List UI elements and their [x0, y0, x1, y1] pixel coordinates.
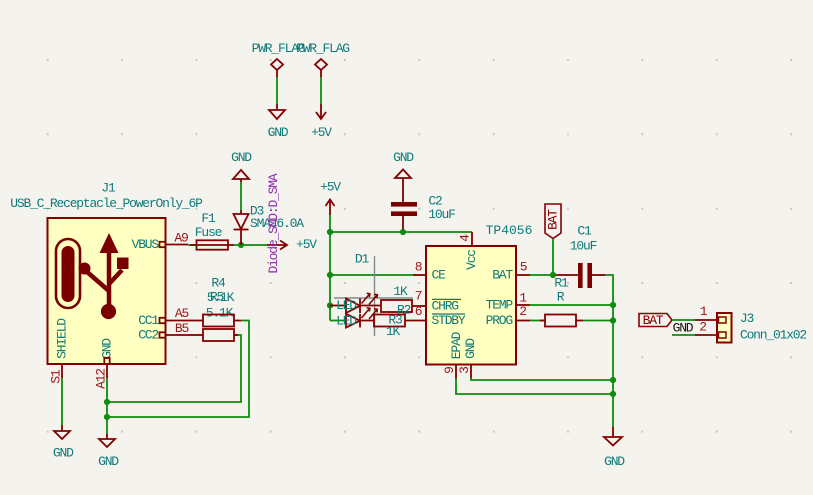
USB-C receptacle glyph — [56, 239, 80, 308]
power label +5V — [311, 125, 332, 140]
svg-text:+5V: +5V — [296, 237, 317, 252]
pin 4 Vcc pin line — [471, 232, 473, 246]
resistor R2 reference — [397, 303, 411, 318]
ground label GND (rail) — [604, 454, 625, 469]
ground label GND (SHIELD) — [53, 446, 74, 461]
power symbol +5V (down arrow) — [316, 104, 326, 119]
wire LED1 anode — [330, 305, 346, 307]
LED D1 element 1 — [346, 293, 381, 313]
IC U1 value TP4056 — [486, 223, 533, 238]
svg-text:3: 3 — [457, 367, 472, 374]
ground symbol above D3 — [233, 170, 249, 182]
ground label GND (D3) — [231, 150, 252, 165]
svg-text:5.1K: 5.1K — [207, 290, 235, 305]
svg-text:7: 7 — [415, 289, 422, 304]
wire D3 anode to ground — [240, 182, 242, 210]
svg-text:J1: J1 — [101, 181, 116, 196]
pin 1 J3 pin line — [695, 319, 717, 321]
connector J3 reference — [740, 311, 754, 326]
pin number A12 — [94, 369, 109, 389]
junction VBUS node — [238, 242, 244, 248]
pin A12 GND pin line — [104, 358, 109, 378]
pin number 8 — [415, 260, 422, 275]
pin 1 TEMP pin line — [516, 304, 530, 306]
pin 3 GND pin line — [470, 365, 472, 380]
resistor R1 value R — [557, 290, 565, 305]
wire TEMP to ground rail — [530, 304, 613, 306]
LED D1 graphic frame — [334, 256, 413, 336]
wire R1 to ground rail — [583, 320, 613, 322]
diode D3 footprint Diode_SMD:D_SMA — [266, 173, 281, 273]
svg-text:Conn_01x02: Conn_01x02 — [740, 328, 806, 343]
svg-text:5.1K: 5.1K — [206, 306, 234, 321]
connector J1 reference — [101, 181, 116, 196]
wire SHIELD to ground — [61, 378, 63, 425]
power symbol +5V (up arrow) — [326, 200, 335, 216]
svg-text:BAT: BAT — [643, 313, 664, 328]
IC U1 TP4056 body — [426, 246, 516, 365]
pin 2 J3 pin line — [695, 334, 717, 336]
pin number 2 — [519, 304, 526, 319]
svg-text:TEMP: TEMP — [486, 298, 514, 313]
resistor R4 reference — [211, 276, 226, 291]
svg-text:GND: GND — [268, 125, 289, 140]
pin number S1 — [49, 369, 64, 384]
pin number 4 — [458, 234, 473, 242]
svg-text:PROG: PROG — [486, 313, 513, 328]
diode D3 value SMAJ6.0A — [250, 216, 304, 231]
svg-text:Diode_SMD:D_SMA: Diode_SMD:D_SMA — [266, 173, 281, 273]
junction at CC2 return — [104, 399, 110, 405]
wire BAT pin to junction — [530, 274, 556, 276]
svg-text:1K: 1K — [393, 284, 408, 299]
svg-text:+5V: +5V — [320, 180, 341, 195]
resistor R3 value 1K — [386, 324, 401, 339]
svg-text:6: 6 — [415, 304, 422, 319]
pin name GND (J1) — [100, 338, 115, 359]
svg-text:USB_C_Receptacle_PowerOnly_6P: USB_C_Receptacle_PowerOnly_6P — [10, 196, 203, 211]
connector J3 value Conn_01x02 — [740, 328, 806, 343]
wire GND label to J3 pin2 — [672, 334, 695, 336]
resistor R5 body — [188, 329, 238, 341]
local label GND (J3) — [673, 321, 694, 336]
pin name CE — [432, 268, 447, 283]
resistor R2 body — [381, 300, 412, 312]
pin S1 SHIELD pin line — [61, 364, 63, 378]
capacitor C2 reference — [428, 194, 442, 209]
pin name STDBY (overline) — [432, 313, 466, 328]
junction at CC1 return — [104, 414, 110, 420]
svg-text:BAT: BAT — [546, 209, 561, 230]
power flag PWR_FLAG #2 symbol — [315, 59, 327, 77]
LED D1 element 2 — [346, 308, 377, 328]
diode D3 reference — [250, 204, 264, 219]
wire C2 to rail — [402, 229, 404, 232]
fuse F1 value Fuse — [195, 225, 222, 240]
pin number 2 (J3) — [699, 320, 706, 335]
svg-text:10uF: 10uF — [570, 239, 597, 254]
junction pin9-gnd — [610, 391, 616, 397]
pin name TEMP — [486, 298, 514, 313]
svg-text:R1: R1 — [554, 276, 569, 291]
wire J1 GND pin down — [106, 378, 108, 434]
pin name Vcc — [464, 250, 479, 270]
pin name PROG — [486, 313, 513, 328]
resistor R1 reference — [554, 276, 569, 291]
svg-text:J3: J3 — [740, 311, 754, 326]
global label BAT (vertical) — [545, 204, 561, 239]
pin number 3 — [457, 367, 472, 374]
svg-text:EPAD: EPAD — [449, 331, 464, 359]
resistor R4 body — [188, 315, 241, 327]
svg-text:Vcc: Vcc — [464, 250, 479, 270]
svg-text:CC1: CC1 — [138, 313, 159, 328]
power label +5V (right) — [296, 237, 317, 252]
USB trident glyph — [79, 233, 129, 319]
svg-text:GND: GND — [231, 150, 252, 165]
connector J1 body — [48, 218, 166, 364]
resistor R3 body — [374, 315, 405, 327]
capacitor C1 value 10uF — [570, 239, 597, 254]
svg-text:TP4056: TP4056 — [486, 223, 533, 238]
LED D1 reference — [355, 252, 370, 267]
pin name CC1 — [138, 313, 159, 328]
power flag PWR_FLAG #1 symbol — [271, 59, 283, 77]
pin name CC2 — [138, 328, 158, 343]
pin A9 VBUS pin line — [160, 242, 189, 247]
junction BAT node — [550, 272, 556, 278]
wire LED2 anode — [330, 320, 346, 322]
wire ground rail vertical — [612, 305, 614, 427]
pin B5 CC2 pin line — [160, 332, 189, 337]
svg-text:GND: GND — [393, 150, 414, 165]
svg-text:D1: D1 — [355, 252, 370, 267]
wire CC1 pulldown return — [107, 321, 249, 418]
junction at C2 — [400, 229, 406, 235]
wire BAT label to junction — [552, 239, 554, 276]
pin 2 PROG pin line — [516, 320, 530, 322]
svg-text:A9: A9 — [174, 231, 188, 246]
svg-text:PWR_FLAG: PWR_FLAG — [296, 41, 349, 56]
svg-text:1K: 1K — [386, 324, 401, 339]
resistor R2 value 1K — [393, 284, 408, 299]
svg-text:5: 5 — [520, 260, 527, 275]
wire BAT label to J3 pin1 — [672, 319, 695, 321]
ground symbol under PWR_FLAG#1 — [269, 104, 285, 119]
pin number 7 — [415, 289, 422, 304]
svg-text:CC2: CC2 — [138, 328, 158, 343]
svg-text:A5: A5 — [175, 306, 189, 321]
power label +5V (top) — [320, 180, 341, 195]
svg-text:C1: C1 — [577, 224, 592, 239]
junction +5V corner — [327, 229, 333, 235]
svg-text:+5V: +5V — [311, 125, 332, 140]
pin number 5 — [520, 260, 527, 275]
wire CC2 pulldown return — [107, 335, 241, 402]
capacitor C1 reference — [577, 224, 592, 239]
svg-text:SHIELD: SHIELD — [55, 318, 70, 359]
ground symbol (J1 GND) — [99, 434, 115, 447]
wire pin9 to ground rail — [456, 378, 613, 394]
svg-text:B5: B5 — [175, 321, 189, 336]
LED label 1 — [336, 298, 357, 313]
svg-text:VBUS: VBUS — [132, 237, 160, 252]
pin number B5 — [175, 321, 189, 336]
svg-text:LED: LED — [336, 298, 357, 313]
power symbol +5V (right arrow) — [267, 241, 287, 250]
wire PWR_FLAG#1 to GND — [276, 77, 278, 104]
svg-text:Fuse: Fuse — [195, 225, 222, 240]
svg-text:2: 2 — [519, 304, 526, 319]
power flag PWR_FLAG #1 label — [252, 41, 305, 56]
svg-text:10uF: 10uF — [428, 207, 455, 222]
svg-text:GND: GND — [604, 454, 625, 469]
resistor R1 body — [540, 315, 583, 327]
wire +5V rail vertical — [329, 232, 331, 321]
pin number A5 — [175, 306, 189, 321]
pin 8 CE pin line — [413, 274, 426, 276]
fuse F1 body — [190, 240, 234, 249]
ground label GND (J1) — [98, 454, 119, 469]
pin number 6 — [415, 304, 422, 319]
wire PROG to R1 — [530, 320, 545, 322]
svg-text:F1: F1 — [201, 211, 216, 226]
pin name VBUS — [132, 237, 160, 252]
ground symbol (SHIELD) — [54, 425, 70, 439]
junction TEMP-gnd — [610, 302, 616, 308]
pin name EPAD — [449, 331, 464, 359]
pin number A9 — [174, 231, 188, 246]
junction at LED anode — [327, 302, 333, 308]
wire pin3 to ground rail — [471, 378, 613, 380]
svg-text:STDBY: STDBY — [432, 313, 466, 328]
pin number 9 — [442, 367, 457, 374]
capacitor C2 — [391, 178, 417, 229]
ground symbol (rail) — [604, 427, 622, 446]
LED label 2 — [336, 313, 357, 328]
wire fuse to junction — [234, 244, 267, 246]
resistor R4 value 5.1K — [207, 290, 235, 305]
wire C1 to ground rail — [605, 275, 613, 305]
resistor R5 value 5.1K — [206, 306, 234, 321]
svg-text:8: 8 — [415, 260, 422, 275]
svg-text:BAT: BAT — [492, 268, 513, 283]
svg-text:CE: CE — [432, 268, 447, 283]
pin name CHRG (overline) — [432, 299, 462, 314]
power flag PWR_FLAG #2 label — [296, 41, 349, 56]
resistor R5 reference — [210, 290, 224, 305]
pin 5 BAT pin line — [516, 274, 530, 276]
junction pin3-gnd — [610, 377, 616, 383]
connector J1 value USB_C_Receptacle_PowerOnly_6P — [10, 196, 203, 211]
svg-text:2: 2 — [699, 320, 706, 335]
resistor R3 reference — [388, 313, 402, 328]
svg-text:LED: LED — [336, 313, 357, 328]
wire PWR_FLAG#2 to +5V — [320, 77, 322, 104]
global label BAT (horizontal) — [639, 313, 672, 328]
pin number 1 — [519, 291, 527, 306]
pin number 1 (J3) — [700, 304, 708, 319]
pin A5 CC1 pin line — [160, 318, 189, 323]
pin name SHIELD — [55, 318, 70, 359]
wire +5V rail horizontal — [330, 231, 472, 233]
ground label GND — [268, 125, 289, 140]
pin name BAT — [492, 268, 513, 283]
svg-text:GND: GND — [463, 338, 478, 359]
pin 6 STDBY pin line — [405, 320, 426, 322]
svg-text:CHRG: CHRG — [432, 299, 459, 314]
fuse F1 reference — [201, 211, 216, 226]
svg-text:GND: GND — [53, 446, 74, 461]
capacitor C1 body — [556, 263, 605, 288]
capacitor C2 value 10uF — [428, 207, 455, 222]
pin 7 CHRG pin line — [412, 305, 426, 307]
diode D3 body — [234, 210, 249, 245]
connector J3 body — [717, 313, 732, 343]
svg-text:9: 9 — [442, 367, 457, 374]
svg-text:GND: GND — [98, 454, 119, 469]
wire +5V down to rail — [329, 215, 331, 232]
junction R1-gnd — [610, 317, 616, 323]
wire CE from +5V rail — [330, 274, 413, 276]
wire VBUS to fuse — [188, 244, 197, 246]
svg-text:GND: GND — [673, 321, 694, 336]
junction at CE — [327, 272, 333, 278]
pin name GND (U1) — [463, 338, 478, 359]
ground symbol above C2 — [395, 170, 411, 179]
svg-text:R4: R4 — [211, 276, 226, 291]
ground label GND (C2) — [393, 150, 414, 165]
svg-text:GND: GND — [100, 338, 115, 359]
pin 9 EPAD pin line — [455, 365, 457, 380]
